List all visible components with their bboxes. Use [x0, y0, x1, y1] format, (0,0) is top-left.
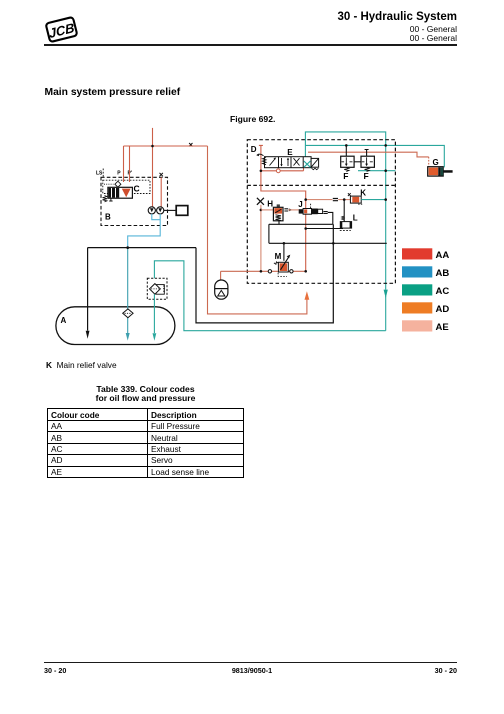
wire accumulator riser: [220, 271, 222, 280]
teal main riser: [385, 296, 387, 331]
wire F2 top: [365, 150, 369, 157]
accumulator: [215, 280, 228, 299]
pilot valve L: [340, 222, 351, 229]
wire H feed: [261, 209, 274, 211]
wire return loop left: [196, 224, 333, 323]
wire M riser: [283, 243, 285, 260]
pump unit box B: [101, 177, 168, 225]
wire servo return loop: [208, 146, 307, 314]
diffuser diamond: [123, 309, 133, 318]
svg-text:M: M: [275, 252, 282, 261]
E left spring: [263, 158, 267, 165]
header titles: [337, 11, 457, 43]
LS port: [102, 169, 104, 178]
wire E drain: [261, 168, 304, 171]
legend AD: [402, 302, 432, 313]
figure caption: [230, 114, 275, 124]
wire pump drains (blue): [128, 214, 161, 247]
wire P line: [123, 146, 125, 182]
wire H/J loop: [269, 221, 333, 244]
wire drain to tank: [127, 248, 129, 334]
wire LS/P feed header (red): [124, 145, 208, 147]
wire K to L: [343, 200, 345, 222]
wire return manifold: [269, 242, 387, 244]
servo relief valve M: [278, 262, 288, 272]
M port circles: [268, 270, 271, 273]
footer rule: [44, 662, 457, 663]
JCB logo: [42, 13, 82, 47]
main relief valve K: [350, 196, 361, 203]
cylinder G: [428, 167, 444, 176]
teal branch under F2: [358, 170, 395, 172]
E proportional solenoid: [311, 158, 319, 167]
M drain dashes: [278, 273, 287, 277]
check valve in C: [115, 181, 121, 187]
gear pump 2: [157, 207, 164, 214]
svg-text:AD: AD: [436, 304, 450, 315]
wire pump pressure riser: [152, 128, 154, 207]
svg-text:B: B: [105, 213, 111, 222]
junction blue/black: [126, 246, 129, 249]
filter bypass: [156, 285, 164, 295]
teal line to cylinder: [305, 145, 444, 167]
spring F2: [365, 167, 370, 171]
arrow up into valve block: [305, 291, 310, 300]
arrow into tank (drain): [126, 333, 130, 341]
svg-text:J: J: [298, 200, 302, 209]
filter element: [150, 284, 161, 295]
filter box: [147, 278, 167, 299]
arrow into tank: [86, 331, 90, 339]
flow regulator J: [299, 209, 303, 213]
orifice after J: [323, 212, 327, 214]
junction: [151, 145, 154, 148]
svg-text:LS: LS: [96, 171, 103, 177]
teal exhaust: filter drop: [154, 261, 385, 331]
engine: [176, 206, 188, 216]
wire P' line: [129, 146, 131, 182]
svg-text:D: D: [251, 145, 257, 154]
orifice: [333, 199, 338, 201]
wire H to J: [288, 209, 299, 211]
directional valve E: [265, 157, 312, 168]
K caption: [46, 360, 117, 370]
svg-text:AC: AC: [436, 286, 450, 297]
wire M line (salmon): [221, 270, 306, 272]
drain under compensator: [109, 198, 112, 201]
wire L drain line: [306, 228, 343, 230]
reducing valve H: [277, 204, 280, 207]
svg-text:K: K: [360, 189, 366, 198]
wire K pilot (salmon): [306, 199, 351, 201]
svg-text:A: A: [61, 316, 67, 325]
compensator box C: [103, 180, 150, 193]
flow arrow: [289, 209, 292, 212]
wire F link: [354, 161, 361, 163]
valve block D box: [247, 140, 395, 284]
relief valve F2: [361, 156, 374, 167]
svg-text:H: H: [267, 200, 273, 209]
legend AC: [402, 284, 432, 295]
svg-text:E: E: [287, 148, 293, 157]
section heading: [45, 87, 181, 98]
wire tank suction (black): [87, 248, 89, 331]
plugged port mark on feed line: [189, 143, 192, 146]
svg-text:F: F: [343, 171, 348, 181]
teal arrow down: [384, 290, 388, 299]
spring on B left edge: [103, 196, 108, 202]
wire J out: [328, 212, 333, 224]
plugged port X: [257, 198, 264, 205]
arrow into tank (exhaust): [153, 333, 157, 341]
svg-text:F: F: [364, 171, 369, 181]
wire orange to cylinder: [308, 152, 429, 157]
wire F1 top: [345, 145, 347, 156]
wire K out (teal): [361, 199, 386, 201]
wire X stub down (salmon): [260, 205, 262, 271]
wire E supply vertical (red): [259, 145, 306, 271]
tank A: [56, 307, 175, 345]
wire pump2 feed: [160, 177, 162, 207]
L drain dashes: [340, 230, 351, 232]
svg-text:G: G: [433, 158, 439, 167]
relief valve F1: [341, 156, 354, 167]
pump compensator valve C: [108, 187, 132, 198]
colour code table: [47, 408, 244, 478]
plugged port mark on B top: [160, 173, 163, 176]
header rule: [44, 44, 457, 46]
spring F1: [344, 167, 349, 171]
gear pump 1: [148, 207, 155, 214]
svg-text:AA: AA: [436, 250, 450, 261]
svg-text:C: C: [134, 184, 140, 194]
legend AB: [402, 266, 432, 277]
pilot dashes above J: [310, 204, 312, 209]
svg-text:AE: AE: [436, 322, 449, 333]
D divider: [247, 184, 395, 186]
table titles: [47, 385, 244, 404]
svg-text:AB: AB: [436, 268, 450, 279]
orifice after H: [284, 209, 288, 211]
legend AE: [402, 320, 432, 331]
svg-text:L: L: [353, 214, 358, 223]
svg-text:P: P: [117, 171, 121, 177]
wire tank header: [88, 247, 196, 249]
E teal bowtie: [304, 161, 311, 167]
wire pump-engine: [164, 209, 176, 211]
spring under solenoid: [312, 168, 319, 170]
legend AA: [402, 248, 432, 259]
